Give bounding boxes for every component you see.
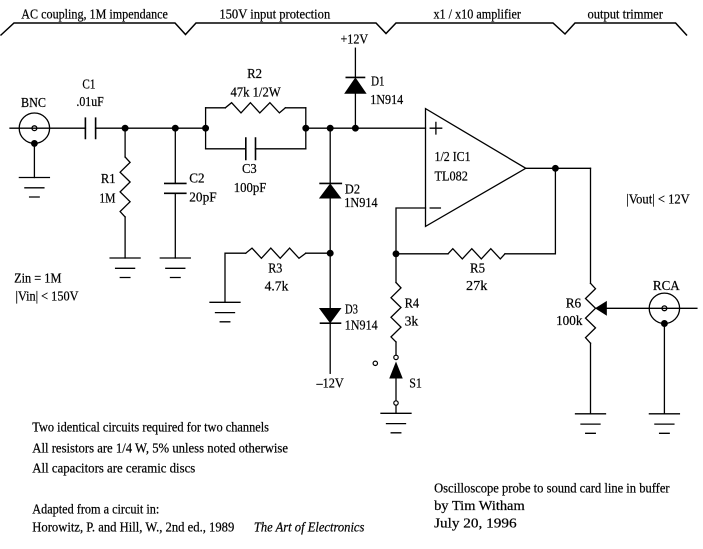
svg-text:BNC: BNC (21, 95, 46, 110)
resistor R2 (206, 107, 306, 109)
svg-text:1M: 1M (99, 190, 115, 205)
node dot D1 tap (353, 125, 359, 131)
node dot output (553, 166, 559, 172)
potentiometer R6 (586, 283, 596, 343)
svg-text:4.7k: 4.7k (265, 278, 289, 293)
junction RCA shield (662, 321, 668, 327)
R2 C3 box right side (305, 108, 307, 149)
svg-text:47k 1/2W: 47k 1/2W (230, 85, 281, 100)
svg-text:C2: C2 (189, 171, 204, 186)
capacitor C3 (206, 148, 306, 150)
wire wiper to RCA (606, 307, 697, 309)
resistor R3 (225, 253, 246, 302)
switch S1 (394, 355, 398, 359)
svg-text:July 20, 1996: July 20, 1996 (434, 516, 517, 531)
wire output corner to R6 (590, 168, 592, 283)
svg-text:Two identical circuits require: Two identical circuits required for two … (32, 420, 269, 435)
svg-text:by Tim Witham: by Tim Witham (434, 498, 525, 513)
diode D1 (346, 76, 364, 78)
svg-text:1N914: 1N914 (370, 92, 403, 107)
svg-text:–12V: –12V (316, 376, 344, 391)
svg-text:.01uF: .01uF (76, 94, 104, 109)
svg-text:Horowitz, P. and Hill, W., 2nd: Horowitz, P. and Hill, W., 2nd ed., 1989 (32, 520, 234, 535)
node dot after C1 (122, 125, 128, 131)
svg-text:1/2 IC1: 1/2 IC1 (435, 149, 471, 164)
junction BNC shield (32, 141, 38, 147)
svg-text:3k: 3k (405, 313, 419, 328)
ground R3 (210, 302, 240, 322)
svg-text:R1: R1 (101, 171, 116, 186)
node dot R2 box right (303, 125, 309, 131)
svg-text:100pF: 100pF (234, 180, 267, 195)
svg-text:S1: S1 (409, 376, 422, 391)
svg-text:|Vin| < 150V: |Vin| < 150V (16, 288, 79, 303)
connector RCA (649, 293, 679, 323)
svg-text:C1: C1 (82, 76, 95, 91)
ground BNC (19, 178, 49, 198)
svg-text:100k: 100k (556, 313, 583, 328)
wire RCA to ground (663, 324, 665, 414)
svg-text:R5: R5 (470, 261, 485, 276)
diode D2 (320, 182, 341, 184)
op-amp U1 (426, 109, 526, 227)
connector BNC (19, 113, 49, 143)
wire BNC to ground (33, 143, 35, 177)
svg-text:R2: R2 (247, 66, 262, 81)
resistor R1 (124, 128, 126, 157)
R2 C3 box left side (205, 108, 207, 149)
svg-text:output trimmer: output trimmer (588, 7, 664, 22)
svg-text:|Vout| < 12V: |Vout| < 12V (626, 191, 690, 206)
node dot R2 box left (203, 125, 209, 131)
op-amp plus pin mark (430, 122, 442, 134)
svg-text:RCA: RCA (653, 278, 680, 293)
svg-text:D3: D3 (345, 302, 358, 317)
node dot feedback (393, 251, 399, 257)
svg-text:27k: 27k (466, 278, 488, 293)
wire input left segment (10, 127, 85, 129)
ground R1 (110, 258, 140, 278)
svg-text:Zin = 1M: Zin = 1M (14, 271, 61, 286)
wire D3 to -12V (329, 323, 331, 373)
ground R6 (576, 414, 606, 434)
node dot C2 tap (173, 125, 179, 131)
wire op-amp output (526, 167, 591, 169)
wire inverting input (396, 208, 426, 254)
wire output down to R5 (505, 168, 555, 254)
capacitor C2 (174, 128, 176, 183)
svg-text:D1: D1 (371, 74, 384, 89)
ground S1 (381, 413, 411, 433)
resistor R4 (395, 254, 397, 283)
svg-text:Adapted from a circuit in:: Adapted from a circuit in: (32, 502, 159, 517)
op-amp minus pin mark (430, 207, 440, 209)
svg-text:R4: R4 (405, 296, 420, 311)
svg-text:The Art of Electronics: The Art of Electronics (254, 520, 365, 535)
svg-text:150V input protection: 150V input protection (219, 7, 330, 22)
ground RCA (649, 414, 679, 434)
svg-text:All capacitors are ceramic dis: All capacitors are ceramic discs (32, 461, 195, 476)
wiper arrow R6 (596, 302, 606, 315)
svg-text:All resistors are 1/4 W, 5% un: All resistors are 1/4 W, 5% unless noted… (32, 441, 288, 456)
wire C1 to R2 box (96, 127, 206, 129)
wire +12V to D1 (354, 48, 356, 77)
wire R2 box to op-amp + input (306, 127, 426, 129)
svg-text:TL082: TL082 (435, 168, 468, 183)
svg-text:Oscilloscope probe to sound ca: Oscilloscope probe to sound card line in… (434, 481, 670, 496)
capacitor C1 (85, 118, 95, 138)
section brace line (1, 23, 687, 35)
svg-text:20pF: 20pF (189, 190, 217, 205)
svg-text:R3: R3 (268, 261, 282, 276)
resistor R5 (448, 249, 505, 259)
svg-text:1N914: 1N914 (344, 195, 378, 210)
svg-text:x1 / x10 amplifier: x1 / x10 amplifier (433, 7, 521, 22)
svg-text:C3: C3 (242, 161, 257, 176)
svg-text:1N914: 1N914 (345, 318, 378, 333)
svg-text:AC coupling, 1M impendance: AC coupling, 1M impendance (21, 7, 168, 22)
svg-text:R6: R6 (566, 295, 582, 310)
node dot D2 D3 R3 (327, 250, 333, 256)
node dot D2 tap (327, 125, 333, 131)
ground C2 (160, 258, 190, 278)
wire node to D2 (329, 128, 331, 183)
svg-text:+12V: +12V (340, 31, 368, 46)
diode D3 (329, 253, 331, 309)
